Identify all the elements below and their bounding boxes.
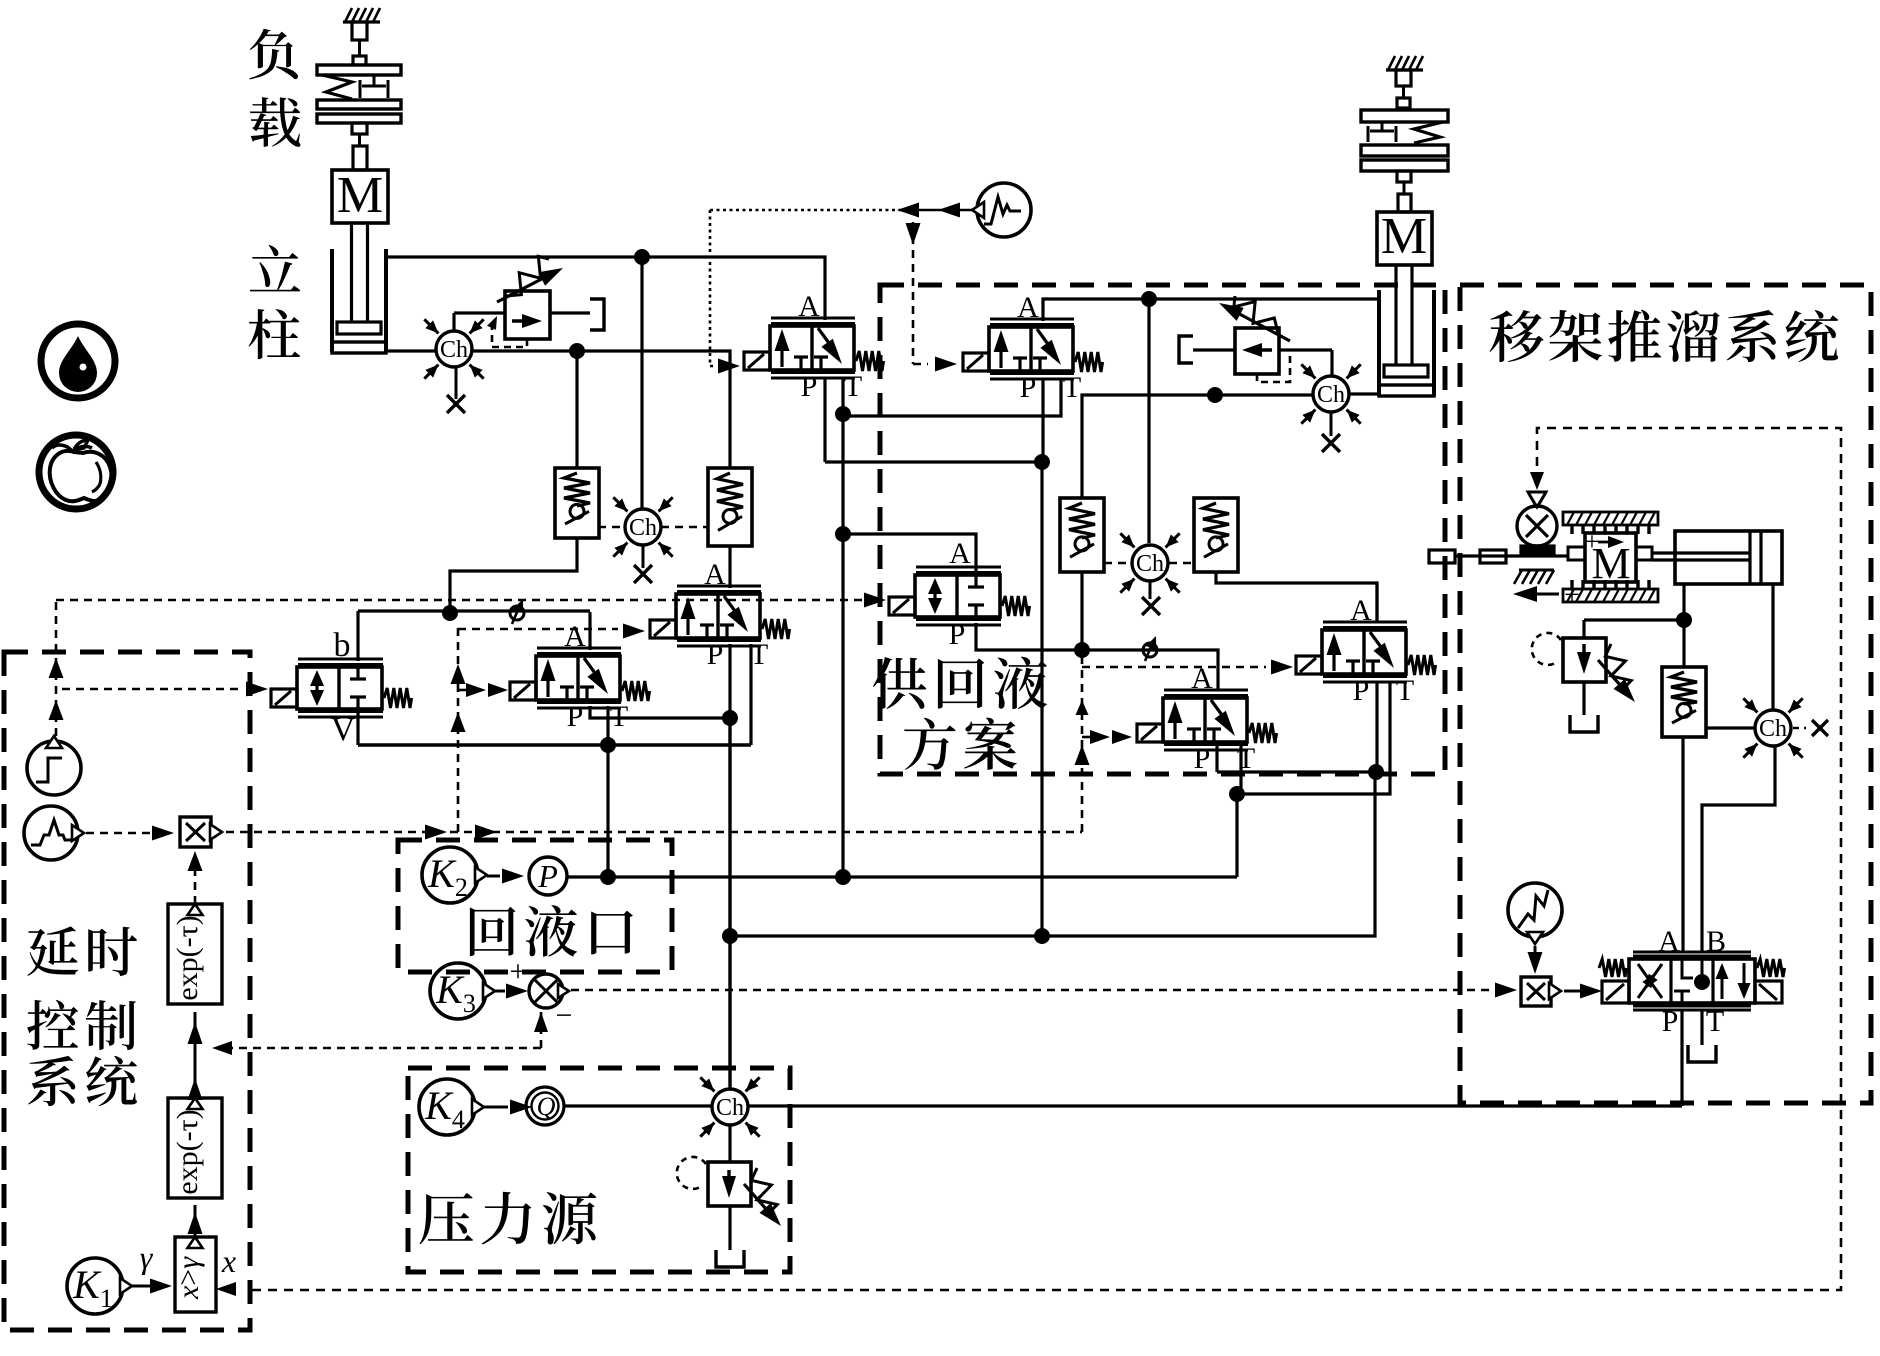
wire: V1 T down to return line xyxy=(841,534,844,877)
V3 P line down-right xyxy=(590,706,730,718)
dashed box: frame-advance push system 移架推溜系统 xyxy=(1460,285,1871,1103)
valve V5 2/2 directional valve xyxy=(889,537,1030,651)
S1 branch down to V4 pilot xyxy=(906,222,958,372)
svg-text:T: T xyxy=(1706,1005,1724,1038)
CV1 pilot-operated check valve xyxy=(555,468,599,538)
junction xyxy=(1676,612,1692,628)
svg-text:M: M xyxy=(1381,208,1427,265)
V6 b port up to wire xyxy=(356,611,359,661)
K3 to summer arrow xyxy=(495,984,528,999)
wire: junction to CV-R top xyxy=(577,351,730,468)
svg-text:A: A xyxy=(949,537,971,570)
svg-text:Ch: Ch xyxy=(1136,551,1164,577)
RV2 pilot dashed circle xyxy=(677,1157,706,1189)
label 压力源 xyxy=(420,1192,597,1245)
K1 to comparator arrow xyxy=(132,1279,172,1294)
valve V2 3/2 directional valve xyxy=(650,558,790,671)
feedback into comparator xyxy=(216,1282,236,1296)
dashed branch to V6 pilot xyxy=(62,682,268,697)
V7 P line down to pump wire xyxy=(1680,1010,1683,1106)
wire: to right cylinder A port xyxy=(1149,297,1380,300)
relief valve RV2 (pump) xyxy=(708,1125,781,1250)
svg-text:A: A xyxy=(798,290,820,323)
displacement feedback dashed path xyxy=(252,428,1841,1290)
junction xyxy=(722,710,738,726)
column cylinder 立柱 xyxy=(332,249,386,353)
Ch2 hydraulic chamber node xyxy=(613,497,672,556)
gain block K1 xyxy=(67,1258,132,1314)
CV3 pilot-operated check valve xyxy=(1060,498,1104,572)
spring-damper bottom plate xyxy=(317,114,401,123)
svg-text:T: T xyxy=(844,370,862,403)
V1 P line down xyxy=(823,377,826,462)
junction xyxy=(835,869,851,885)
comparator block x>gamma xyxy=(172,1237,216,1312)
V2 T line down xyxy=(749,644,752,745)
label 供回液方案 xyxy=(873,657,1047,770)
wire: CV3 bottom to A-line junction xyxy=(1080,572,1083,650)
K4 to Q arrow xyxy=(484,1100,532,1115)
wire: return line y=877 xyxy=(567,875,1237,878)
junction xyxy=(1207,387,1223,403)
svg-text:Ch: Ch xyxy=(1759,716,1787,742)
push cylinder (horizontal) xyxy=(1652,531,1782,584)
junction xyxy=(1074,642,1090,658)
mass M (load) xyxy=(332,167,388,224)
summing junction xyxy=(510,955,573,1032)
wire: Ch5 left then down through CV3 xyxy=(1082,395,1313,498)
wall anchor (hatched ceiling) xyxy=(343,8,380,22)
svg-text:P: P xyxy=(1194,742,1211,775)
V9 A line up xyxy=(1375,583,1378,623)
valve V6 2/2 directional valve xyxy=(271,659,412,717)
tank (pump relief) xyxy=(716,1250,744,1267)
svg-text:+: + xyxy=(1564,580,1580,611)
V1 T line down xyxy=(841,377,844,414)
junction xyxy=(1034,454,1050,470)
S1 branch down to V1 pilot xyxy=(710,210,740,374)
valve V1 3/2 directional valve xyxy=(744,290,884,403)
Ch1 hydraulic chamber node xyxy=(424,319,483,378)
connector block xyxy=(352,123,367,170)
wire: junction down through CV5 xyxy=(1682,620,1685,667)
tank (V7) xyxy=(1688,1045,1716,1062)
valve V8 3/2 directional valve xyxy=(1137,662,1277,775)
label 延时控制系统 xyxy=(27,926,137,1106)
V3 A line up xyxy=(588,612,591,650)
wire: column down to Ch6 xyxy=(1147,299,1150,543)
wire: to relief RV3 xyxy=(1584,618,1684,621)
V4 T line down-left xyxy=(843,378,1061,416)
wire: branch to V5 A xyxy=(843,534,976,575)
Ch6 dashed stub right xyxy=(1169,562,1194,565)
svg-text:P: P xyxy=(567,700,584,733)
arrow chain between exp blocks xyxy=(188,1012,203,1100)
spring-damper mid plate xyxy=(317,100,401,109)
Ch5 hydraulic chamber node xyxy=(1301,364,1360,423)
moving mass M (right system) xyxy=(1568,527,1652,588)
junction xyxy=(600,737,616,753)
svg-text:M: M xyxy=(337,167,383,224)
velocity arrow with plus xyxy=(1513,580,1580,611)
Ch2 closed port xyxy=(634,545,652,583)
Ch6 hydraulic chamber node xyxy=(1120,533,1179,592)
spring-damper mid plate right xyxy=(1361,145,1448,156)
wire: cylinder bottom to Ch1 xyxy=(386,349,436,352)
flow source Q xyxy=(526,1087,564,1125)
junction xyxy=(600,869,616,885)
relief valve RV3 xyxy=(1563,620,1635,715)
tank bracket RV4 xyxy=(1179,336,1193,363)
svg-text:exp(-τ): exp(-τ) xyxy=(171,915,204,1000)
right column cylinder xyxy=(1379,290,1434,396)
arrow to lower exp block xyxy=(188,1205,203,1237)
svg-text:b: b xyxy=(334,627,351,664)
svg-text:Ch: Ch xyxy=(440,337,468,363)
friction plate bottom (hatched) xyxy=(1563,580,1658,602)
wall anchor right (hatched ceiling) xyxy=(1386,56,1423,70)
svg-text:B: B xyxy=(1706,925,1726,958)
piston rod xyxy=(352,223,368,322)
wire: V tank rail y=745 xyxy=(358,743,751,746)
junction xyxy=(634,249,650,265)
wire: CV5 right to Ch4 xyxy=(1706,726,1754,729)
CV5 pilot-operated check valve xyxy=(1662,667,1706,737)
S1 dotted line with arrows xyxy=(710,203,972,218)
svg-text:Ch: Ch xyxy=(1317,382,1345,408)
svg-text:−: − xyxy=(556,999,573,1032)
S4 dashed riser with arrows xyxy=(49,600,64,736)
junction xyxy=(442,605,458,621)
wire: cylinder B port down to Ch4 xyxy=(1771,584,1774,709)
wire: pump riser xyxy=(728,718,731,1089)
junction xyxy=(722,928,738,944)
Ch2 dashed stub right xyxy=(661,526,707,529)
V5 P line to supply junction xyxy=(976,623,1082,650)
RV1 pilot dashed line xyxy=(492,321,527,347)
suspension damper right-assembly (left side) xyxy=(1368,122,1396,142)
wire: cylinder A port down xyxy=(1682,584,1685,620)
wire: P rail to V8 xyxy=(1217,770,1376,773)
anchor block and stem xyxy=(352,22,367,65)
piston rod right xyxy=(1396,265,1412,365)
junction xyxy=(1141,291,1157,307)
gain block K2 xyxy=(422,847,487,903)
dashed box: supply/return scheme 供回液方案 xyxy=(880,285,1445,774)
wire: V1 T down to V5 branch xyxy=(841,416,844,534)
delay block exp(-tau) upper xyxy=(168,904,222,1004)
wire: cylinder A to valve V1 A xyxy=(386,257,825,320)
wire: CV-L top xyxy=(575,351,578,468)
svg-text:Ch: Ch xyxy=(629,515,657,541)
junction xyxy=(569,343,585,359)
svg-text:P: P xyxy=(949,618,966,651)
CV4 pilot-operated check valve xyxy=(1194,498,1238,572)
wire: junction down to Ch2 xyxy=(640,257,643,509)
spring-damper mount top plate xyxy=(317,65,401,75)
RV3 pilot dashed circle xyxy=(1532,633,1561,665)
wire: Ch1 to CV junction xyxy=(472,349,577,352)
V7 B line up xyxy=(1702,747,1775,952)
wire: V9/V8 T collector xyxy=(1237,682,1390,877)
dashed box: pressure source 压力源 xyxy=(408,1068,790,1272)
Ch6 closed port xyxy=(1142,581,1160,615)
svg-text:x>γ: x>γ xyxy=(172,1256,205,1300)
V4 P line down xyxy=(1041,378,1044,462)
svg-text:Ch: Ch xyxy=(716,1095,744,1121)
svg-text:A: A xyxy=(704,558,726,591)
CV2 pilot-operated check valve xyxy=(708,468,752,546)
V8 T line down xyxy=(1239,746,1242,794)
label 移架推溜系统 xyxy=(1490,310,1838,362)
Ch3 hydraulic chamber node xyxy=(700,1077,759,1136)
wire: P junction down to pump line xyxy=(1040,462,1043,936)
tank bracket RV1 xyxy=(590,299,604,330)
svg-text:P: P xyxy=(1353,674,1370,707)
K2 to P arrow xyxy=(487,869,524,884)
svg-text:P: P xyxy=(537,858,558,894)
wire: Q to Ch3 xyxy=(564,1104,712,1107)
apple icon xyxy=(39,435,113,509)
label 负载 xyxy=(249,29,300,147)
relief valve RV4 (right, mirrored) xyxy=(1193,296,1332,375)
force sensor (X circle) with funnel xyxy=(1517,492,1557,554)
junction xyxy=(1368,764,1384,780)
gain block K4 xyxy=(419,1079,484,1135)
svg-text:A: A xyxy=(1658,925,1680,958)
S3 arrow down to multiplier xyxy=(1528,946,1543,974)
ground hatch below sensor xyxy=(1514,570,1554,584)
suspension damper (right) xyxy=(360,75,388,98)
link to sensor xyxy=(1429,550,1568,563)
V4 A line up and right xyxy=(1043,299,1149,321)
svg-text:T: T xyxy=(1063,371,1081,404)
dashed riser x=458 to V3/V2 pilots xyxy=(451,624,646,833)
dashed box: return port 回液口 xyxy=(398,840,672,972)
dashed box: delay control system 延时控制系统 xyxy=(4,652,250,1330)
relief valve RV1 xyxy=(454,256,590,339)
M2 to valve arrow xyxy=(1564,984,1602,999)
orifice node xyxy=(1143,643,1157,657)
spring-damper bottom plate right xyxy=(1361,160,1448,171)
label 立柱 xyxy=(249,245,301,359)
dashed line summer to right multiplier xyxy=(571,989,1496,992)
svg-text:T: T xyxy=(1396,674,1414,707)
svg-text:A: A xyxy=(1350,594,1372,627)
dashed link M1 input from exp chain xyxy=(188,851,203,904)
Ch2 dashed stub left xyxy=(598,526,625,529)
wire: pump branch right xyxy=(730,772,1375,936)
svg-text:V: V xyxy=(331,711,356,748)
V6 V port down to tank wire xyxy=(356,711,359,745)
valve V7 4/3 directional valve xyxy=(1599,925,1785,1038)
Ch4 hydraulic chamber node xyxy=(1743,698,1802,757)
junction xyxy=(1229,786,1245,802)
valve V4 3/2 directional valve xyxy=(963,291,1103,404)
pressure port P xyxy=(529,857,567,895)
junction xyxy=(1034,928,1050,944)
wire: V1 P to supply junction xyxy=(825,460,1042,463)
junction xyxy=(835,526,851,542)
dashed line S2 to multiplier xyxy=(86,826,174,841)
V3 T line down xyxy=(606,706,609,877)
signal source S3 (ramp) xyxy=(1508,883,1562,944)
multiplier block M1 xyxy=(180,817,222,847)
label 回液口 xyxy=(470,905,633,956)
svg-text:+: + xyxy=(510,955,527,988)
svg-text:exp(-τ): exp(-τ) xyxy=(171,1109,204,1194)
valve V3 3/2 directional valve xyxy=(510,620,650,733)
friction plate top (hatched) xyxy=(1563,512,1658,534)
summer minus input dashed xyxy=(212,1012,548,1055)
svg-text:A: A xyxy=(1017,291,1039,324)
svg-text:x: x xyxy=(221,1243,236,1279)
fluid properties icon (droplet) xyxy=(41,324,115,398)
svg-text:Q: Q xyxy=(537,1092,556,1121)
RV4 pilot dashed line xyxy=(1257,352,1290,382)
pulse signal source S2 xyxy=(24,806,84,860)
spring-damper top plate right xyxy=(1361,110,1448,122)
dashed input arrow into M2 xyxy=(1495,983,1517,998)
signal source S1 (pressure command) xyxy=(972,183,1031,237)
suspension spring right-assembly (right side) xyxy=(1414,122,1443,143)
wire: V8 A to supply junction xyxy=(1082,650,1218,691)
Ch6 dashed stub left xyxy=(1104,562,1131,565)
svg-text:P: P xyxy=(801,370,818,403)
V8 P line up xyxy=(1215,746,1218,772)
V7 T to tank xyxy=(1700,1010,1703,1045)
svg-text:γ: γ xyxy=(140,1239,154,1275)
svg-text:+: + xyxy=(1585,527,1600,556)
Ch4 dashed stub and closed port xyxy=(1793,720,1828,736)
svg-text:P: P xyxy=(1020,371,1037,404)
step signal source S4 xyxy=(27,736,81,795)
wire: b-port rail xyxy=(358,609,590,612)
svg-text:A: A xyxy=(564,620,586,653)
gain block K3 xyxy=(430,963,495,1019)
V7 A line up xyxy=(1681,737,1684,952)
delay block exp(-tau) lower xyxy=(168,1098,222,1198)
multiplier block M2 xyxy=(1521,977,1561,1006)
Ch1 closed port xyxy=(447,367,465,413)
V9 P line down xyxy=(1375,682,1378,772)
dashed control line to V5 pilot xyxy=(56,593,886,608)
svg-text:T: T xyxy=(1237,742,1255,775)
wire: pump line to V7 P xyxy=(748,1104,1682,1107)
svg-text:P: P xyxy=(1662,1005,1679,1038)
mass M right xyxy=(1377,208,1432,265)
suspension spring (left) xyxy=(322,75,352,99)
wire: CV-R bottom to V2 A xyxy=(728,546,731,588)
orifice node xyxy=(510,606,524,620)
wire: CV-L bottom to A-line xyxy=(450,538,577,613)
connector block right xyxy=(1397,171,1411,212)
wire: CV4 bottom to V9 A xyxy=(1216,572,1377,623)
valve V9 3/2 directional valve xyxy=(1296,594,1436,707)
svg-text:P: P xyxy=(707,638,724,671)
dashed control trunk y=832 xyxy=(226,825,1082,840)
V2 P line down xyxy=(728,644,731,718)
anchor block and stem right xyxy=(1396,70,1411,108)
junction xyxy=(835,406,851,422)
wire: right cylinder B port to Ch5 xyxy=(1350,392,1379,395)
dashed riser x=1082 to V8/V9 pilots xyxy=(1075,655,1294,832)
Ch5 closed port xyxy=(1322,412,1340,452)
tank (RV3) xyxy=(1570,715,1598,732)
